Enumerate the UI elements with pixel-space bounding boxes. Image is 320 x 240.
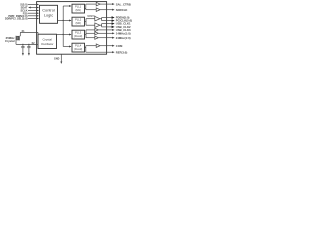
svg-text:GND: GND (54, 57, 60, 60)
svg-text:(M2): (M2) (76, 21, 81, 25)
svg-text:COM: COM (116, 44, 123, 48)
svg-text:DDR/PCI_SEL(2:0): DDR/PCI_SEL(2:0) (5, 17, 28, 21)
svg-text:Oscillator: Oscillator (41, 42, 54, 46)
svg-text:REF(3:0): REF(3:0) (116, 50, 128, 54)
svg-text:(M1): (M1) (76, 8, 81, 12)
svg-text:Crystal: Crystal (5, 39, 15, 43)
svg-text:(Fixed): (Fixed) (74, 47, 82, 51)
svg-text:SAL_CTRB: SAL_CTRB (116, 2, 131, 6)
svg-text:14MHz(1:0): 14MHz(1:0) (116, 31, 131, 35)
svg-text:24MHz(1:0): 24MHz(1:0) (116, 36, 131, 40)
svg-text:Logic: Logic (44, 13, 53, 18)
svg-text:SDRCLK: SDRCLK (116, 8, 128, 12)
svg-text:(Fixed): (Fixed) (74, 34, 82, 38)
svg-text:66MHz: 66MHz (87, 15, 96, 18)
